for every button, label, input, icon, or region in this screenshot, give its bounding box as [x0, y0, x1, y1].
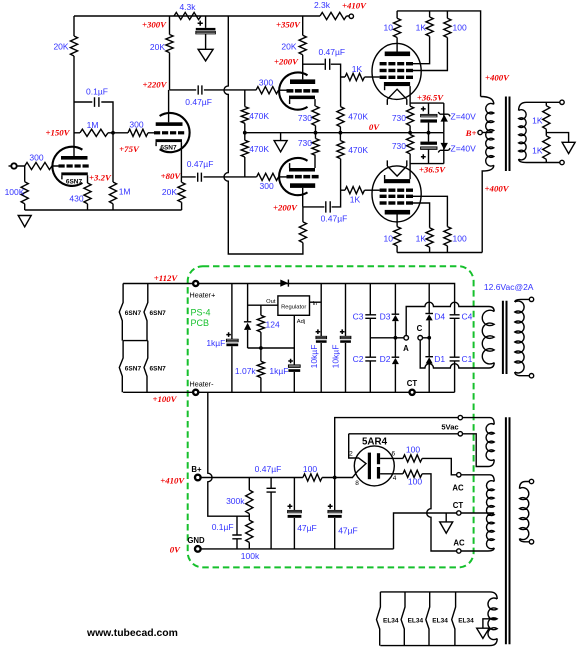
- transformer T2 right winding: [515, 301, 524, 373]
- terminal 12.6V bottom: [529, 374, 533, 378]
- resistor R24 10: [396, 11, 398, 52]
- svg-text:AC: AC: [452, 483, 464, 492]
- transformer T3 5V winding: [463, 418, 495, 425]
- resistor R6 1M: [112, 133, 114, 210]
- svg-text:5AR4: 5AR4: [362, 437, 388, 448]
- rectifier V3 5AR4: [354, 446, 394, 486]
- resistor R28 10: [396, 215, 398, 253]
- wire pin2 to 5Vac: [349, 433, 458, 435]
- capacitor C20 47uF: [334, 478, 336, 549]
- svg-text:100K: 100K: [5, 187, 25, 197]
- diode D3 series: [280, 280, 288, 287]
- resistor R3 2.3k: [320, 12, 347, 19]
- resistor R35 1.07k: [260, 348, 262, 392]
- svg-text:1K: 1K: [532, 145, 543, 155]
- svg-text:Adj: Adj: [297, 319, 305, 325]
- transformer T1 core: [506, 97, 510, 172]
- resistor R37 100k: [246, 520, 253, 542]
- transformer T1 primary winding: [486, 103, 494, 166]
- svg-text:+36.5V: +36.5V: [419, 164, 446, 174]
- wire cathode node upper: [410, 102, 444, 104]
- svg-text:Z=40V: Z=40V: [451, 111, 477, 121]
- terminal Heater-: [193, 390, 198, 395]
- capacitor C18 0.47uF: [267, 478, 276, 549]
- resistor R25 1K: [413, 11, 430, 64]
- EL34 heater box top: [380, 592, 497, 599]
- svg-text:47µF: 47µF: [297, 523, 317, 533]
- wire top B+ rail: [74, 15, 349, 17]
- svg-text:470K: 470K: [249, 144, 269, 154]
- wire center column +350V feed with hops: [224, 16, 303, 254]
- svg-text:0.47µF: 0.47µF: [318, 47, 345, 57]
- ground on CT: [445, 513, 447, 522]
- svg-text:6SN7: 6SN7: [125, 310, 142, 317]
- resistor R11 20K cathode: [180, 177, 182, 210]
- svg-text:124: 124: [266, 320, 280, 330]
- resistor R4 1M: [74, 132, 113, 134]
- capacitor C19 47uF: [293, 478, 295, 549]
- terminal GND: [195, 546, 201, 552]
- svg-text:PCB: PCB: [191, 318, 210, 328]
- transformer T1 primary lead top: [481, 97, 494, 105]
- terminal Heater+: [193, 281, 198, 286]
- wire Adj line: [248, 315, 295, 364]
- wire top plate rail: [397, 11, 481, 97]
- capacitor C13 C3: [365, 284, 376, 358]
- transformer T3 HV winding: [461, 475, 494, 482]
- svg-text:+80V: +80V: [161, 171, 182, 181]
- transformer T3 center tap: [461, 512, 494, 514]
- capacitor C14 C2: [365, 357, 376, 392]
- capacitor C6 0.47uF lower right: [326, 201, 330, 212]
- heater 6SN7 #3: [119, 341, 123, 393]
- svg-text:A: A: [403, 344, 409, 353]
- svg-text:+400V: +400V: [485, 183, 510, 193]
- resistor R39 100 pin6: [380, 457, 403, 459]
- wire 6SN7 heater box middle: [123, 340, 148, 342]
- svg-text:12.6Vac@2A: 12.6Vac@2A: [484, 282, 534, 292]
- svg-text:100: 100: [303, 464, 317, 474]
- svg-text:1M: 1M: [119, 187, 131, 197]
- resistor R40 100 pin4: [380, 473, 403, 475]
- svg-text:100: 100: [406, 444, 420, 454]
- diode D6 D2: [394, 364, 396, 392]
- pentode V1 upper output tube: [372, 43, 421, 99]
- wire PCB bottom rail: [199, 391, 455, 393]
- resistor R30 100: [413, 196, 447, 252]
- resistor R23 730 lower: [312, 139, 319, 156]
- svg-text:4: 4: [393, 475, 397, 482]
- resistor R29 1K: [413, 203, 430, 253]
- terminal A: [404, 336, 409, 341]
- terminal output bottom: [560, 160, 564, 164]
- svg-text:1K: 1K: [416, 234, 427, 244]
- transformer T1 primary lead bottom: [482, 165, 494, 252]
- svg-text:470K: 470K: [348, 112, 368, 122]
- terminal B+ OPT: [482, 132, 492, 134]
- svg-text:C1: C1: [462, 354, 473, 364]
- diode D8 D1: [428, 364, 430, 393]
- svg-text:+300V: +300V: [142, 20, 167, 30]
- resistor R33 1K lower: [543, 136, 550, 160]
- svg-text:C: C: [417, 324, 423, 333]
- svg-text:100: 100: [453, 23, 467, 33]
- svg-text:100k: 100k: [241, 551, 260, 561]
- svg-text:AC: AC: [453, 538, 465, 547]
- svg-text:1kµF: 1kµF: [206, 338, 225, 348]
- diode D5 D3: [394, 284, 396, 358]
- svg-text:300: 300: [29, 153, 43, 163]
- svg-text:300: 300: [129, 119, 143, 129]
- transformer T3 core: [506, 417, 510, 644]
- svg-text:+220V: +220V: [142, 80, 167, 90]
- resistor R22 470K lower right: [337, 141, 344, 159]
- heater EL34 #3: [426, 592, 430, 646]
- capacitor C3 0.47uF upper: [170, 89, 257, 91]
- svg-text:0.47µF: 0.47µF: [255, 464, 282, 474]
- svg-text:730: 730: [298, 113, 312, 123]
- terminal AC upper: [457, 473, 461, 477]
- diode D4 shunt: [247, 284, 249, 349]
- transformer T2 secondary leads: [515, 299, 529, 375]
- 5AR4 plates: [368, 453, 371, 480]
- svg-text:+36.5V: +36.5V: [417, 93, 444, 103]
- svg-text:1K: 1K: [532, 115, 543, 125]
- svg-text:EL34: EL34: [432, 617, 448, 624]
- wire 6SN7 heater box top: [123, 283, 193, 285]
- svg-text:D4: D4: [434, 312, 445, 322]
- svg-text:Heater+: Heater+: [190, 291, 216, 300]
- wire C to transformer: [420, 340, 494, 368]
- wire to 5Vac top: [335, 418, 458, 478]
- wire CT to ground rail: [394, 513, 457, 549]
- svg-text:Out: Out: [266, 299, 276, 305]
- svg-text:6: 6: [391, 450, 395, 457]
- svg-text:8: 8: [355, 480, 359, 487]
- resistor R21 1K lower: [345, 187, 365, 194]
- svg-text:www.tubecad.com: www.tubecad.com: [86, 628, 178, 639]
- svg-text:0V: 0V: [170, 544, 181, 554]
- zener D2 Z=40V: [443, 133, 445, 164]
- EL34 heater box bottom: [380, 639, 497, 646]
- terminal CT: [457, 511, 461, 515]
- wire 0V rail: [245, 132, 444, 134]
- svg-text:0.1µF: 0.1µF: [86, 87, 108, 97]
- pentode V2 lower output tube: [372, 166, 421, 222]
- svg-text:EL34: EL34: [458, 617, 474, 624]
- resistor R26 100: [413, 11, 447, 71]
- terminal 5Vac 1: [458, 415, 462, 419]
- transformer T1 secondary leads: [519, 102, 560, 162]
- svg-text:5Vac: 5Vac: [441, 422, 458, 431]
- triode U1A 6SN7 input: [52, 147, 82, 186]
- capacitor C1 electrolytic 350V: [205, 16, 207, 49]
- triode U2A 6SN7 driver upper: [279, 73, 307, 110]
- resistor R13 470K upper: [244, 90, 246, 133]
- svg-text:Regulator: Regulator: [281, 304, 306, 310]
- svg-text:CT: CT: [453, 501, 464, 510]
- resistor R36 300k: [248, 478, 250, 521]
- diode D7 D4: [428, 284, 430, 357]
- svg-text:20K: 20K: [281, 41, 296, 51]
- svg-text:0.1µF: 0.1µF: [212, 522, 234, 532]
- wire secondary center to ground: [546, 133, 568, 143]
- resistor R5 300: [113, 132, 154, 134]
- svg-text:Heater-: Heater-: [190, 380, 215, 389]
- svg-text:1M: 1M: [87, 120, 99, 130]
- wire ground rail: [25, 209, 182, 211]
- svg-text:D3: D3: [380, 312, 391, 322]
- svg-text:+200V: +200V: [273, 202, 298, 212]
- terminal AC lower: [457, 549, 461, 553]
- terminal CT pcb: [410, 390, 415, 395]
- resistor R12 20K lower plate: [299, 222, 306, 243]
- svg-text:100: 100: [408, 476, 422, 486]
- capacitor C15 C4: [450, 315, 460, 357]
- svg-text:300: 300: [259, 78, 273, 88]
- svg-text:300: 300: [260, 181, 274, 191]
- wire 6SN7 heater box bottom: [123, 391, 193, 393]
- svg-text:EL34: EL34: [408, 617, 424, 624]
- ground below C1: [198, 49, 213, 61]
- svg-text:CT: CT: [407, 379, 418, 388]
- EL34 heater winding: [488, 598, 497, 640]
- svg-text:100: 100: [453, 234, 467, 244]
- terminal +410V: [349, 14, 353, 18]
- svg-text:0.47µF: 0.47µF: [187, 159, 214, 169]
- PS-4 PCB dashed border: [188, 266, 474, 567]
- 5AR4 filament: [349, 434, 366, 478]
- capacitor C8 electrolytic lower: [428, 133, 430, 164]
- svg-text:10kµF: 10kµF: [309, 345, 319, 369]
- svg-text:6SN7: 6SN7: [160, 145, 177, 152]
- resistor R1 20K: [70, 36, 77, 56]
- heater 6SN7 #1: [119, 284, 123, 341]
- svg-text:C3: C3: [353, 312, 364, 322]
- terminal C: [418, 336, 423, 341]
- svg-text:10kµF: 10kµF: [330, 345, 340, 369]
- svg-text:1K: 1K: [350, 194, 361, 204]
- svg-text:C4: C4: [462, 312, 473, 322]
- svg-text:6SN7: 6SN7: [125, 366, 142, 373]
- wire PCB top rail: [199, 284, 455, 315]
- resistor R2 4.3k: [174, 12, 201, 19]
- resistor R34 124: [260, 305, 262, 348]
- svg-text:GND: GND: [187, 536, 205, 545]
- svg-text:430: 430: [69, 193, 83, 203]
- svg-text:20K: 20K: [162, 187, 177, 197]
- wire A to transformer: [406, 302, 494, 335]
- resistor R18 1K upper: [345, 73, 365, 80]
- heater EL34 #1: [377, 592, 381, 646]
- svg-text:4.3k: 4.3k: [179, 2, 196, 12]
- svg-text:+200V: +200V: [274, 57, 299, 67]
- input jack J1: [9, 165, 12, 167]
- svg-text:10: 10: [384, 234, 394, 244]
- capacitor C17 0.1uF: [232, 516, 241, 549]
- wire bottom plate rail: [397, 252, 482, 254]
- capacitor C16 C1: [450, 357, 460, 392]
- resistor R15 300 upper grid: [256, 87, 279, 94]
- svg-text:EL34: EL34: [383, 617, 399, 624]
- svg-text:300k: 300k: [226, 496, 245, 506]
- transformer T1 secondary winding: [519, 110, 527, 160]
- svg-text:1.07k: 1.07k: [235, 366, 257, 376]
- resistor R31 730: [409, 133, 411, 179]
- terminal 12.6V top: [529, 297, 533, 301]
- transformer T2 left winding: [482, 310, 494, 364]
- resistor R27 730: [409, 86, 411, 133]
- terminal mains top: [529, 479, 533, 483]
- svg-text:730: 730: [392, 141, 406, 151]
- resistor R16 300 lower grid: [257, 173, 279, 180]
- svg-text:D2: D2: [380, 354, 391, 364]
- svg-text:B+: B+: [191, 465, 202, 474]
- heater EL34 #2: [401, 592, 405, 646]
- transformer T3 primary winding: [520, 482, 530, 489]
- terminal output top: [560, 100, 564, 104]
- wire mid row: [370, 337, 429, 339]
- wire GND rail: [201, 548, 394, 550]
- svg-text:B+: B+: [465, 128, 477, 138]
- terminal B+: [195, 475, 201, 481]
- heater 6SN7 #2: [144, 284, 148, 341]
- svg-text:1kµF: 1kµF: [269, 366, 288, 376]
- wire In line: [310, 301, 322, 303]
- resistor R38 100: [303, 474, 322, 481]
- resistor R19 470K upper right: [337, 107, 344, 127]
- svg-text:PS-4: PS-4: [191, 308, 211, 318]
- svg-text:2: 2: [349, 450, 353, 457]
- ground symbol: [18, 216, 31, 227]
- triode U2B 6SN7 driver lower: [279, 158, 307, 195]
- terminal 5Vac 2: [458, 432, 462, 436]
- node junction dot: [111, 131, 115, 135]
- svg-text:+100V: +100V: [152, 394, 177, 404]
- svg-text:730: 730: [298, 138, 312, 148]
- svg-text:470K: 470K: [249, 111, 269, 121]
- ground on EL34 winding: [483, 619, 497, 628]
- svg-text:+150V: +150V: [45, 127, 70, 137]
- wire left +300V drop: [73, 16, 75, 156]
- capacitor C9 1kuF: [231, 284, 233, 393]
- svg-text:47µF: 47µF: [338, 526, 358, 536]
- resistor R17 20K upper plate: [303, 16, 325, 79]
- svg-text:+3.2V: +3.2V: [89, 173, 112, 183]
- svg-text:0.47µF: 0.47µF: [321, 214, 348, 224]
- svg-text:+400V: +400V: [485, 72, 510, 82]
- triode U1B 6SN7 concertina: [160, 113, 190, 152]
- svg-text:0.47µF: 0.47µF: [185, 97, 212, 107]
- wire Out line: [248, 304, 278, 306]
- svg-text:+410V: +410V: [342, 0, 367, 10]
- svg-text:C2: C2: [353, 354, 364, 364]
- capacitor C2 0.1uF: [74, 102, 113, 133]
- heater EL34 #4: [452, 592, 456, 646]
- ground on 0V rail: [280, 133, 282, 141]
- wire pin4 to AC lower with hop: [422, 474, 456, 551]
- svg-text:+112V: +112V: [154, 273, 179, 283]
- svg-text:6SN7: 6SN7: [150, 366, 167, 373]
- terminal mains bottom: [529, 540, 533, 544]
- heater 6SN7 #4: [144, 341, 148, 393]
- svg-text:470K: 470K: [348, 145, 368, 155]
- regulator U4 box: [278, 296, 310, 315]
- capacitor C4 0.47uF lower: [181, 176, 256, 178]
- svg-text:+410V: +410V: [160, 476, 185, 486]
- svg-text:Z=40V: Z=40V: [451, 144, 477, 154]
- svg-text:0V: 0V: [369, 122, 380, 132]
- svg-text:1K: 1K: [416, 23, 427, 33]
- resistor R9 430: [84, 183, 91, 204]
- resistor R14 470K lower: [244, 133, 246, 177]
- transformer T2 core: [503, 301, 507, 374]
- svg-text:+75V: +75V: [119, 144, 140, 154]
- capacitor C12 10kuF: [345, 284, 347, 393]
- svg-text:20K: 20K: [53, 42, 68, 52]
- capacitor C5 0.47uF upper right: [325, 59, 329, 70]
- capacitor C11 10kuF: [320, 284, 322, 393]
- zener D1 Z=40V: [443, 103, 445, 133]
- wire lower plate to node: [303, 188, 325, 207]
- capacitor C7 electrolytic upper: [428, 103, 430, 133]
- wire input: [17, 166, 59, 210]
- svg-text:10: 10: [384, 23, 394, 33]
- resistor R20 730 upper: [312, 106, 319, 126]
- svg-text:1K: 1K: [352, 64, 363, 74]
- resistor R32 1K upper: [545, 102, 547, 136]
- svg-text:D1: D1: [434, 354, 445, 364]
- svg-text:6SN7: 6SN7: [66, 178, 83, 185]
- wire B+ rail: [201, 477, 353, 479]
- wire cathode node lower: [410, 163, 444, 165]
- svg-text:6SN7: 6SN7: [150, 310, 167, 317]
- capacitor C10 1kuF: [288, 365, 300, 368]
- wire heater elevation drop with hop: [208, 392, 250, 516]
- svg-text:+350V: +350V: [276, 20, 301, 30]
- resistor R8 100K: [21, 182, 28, 204]
- svg-text:730: 730: [392, 113, 406, 123]
- svg-text:2.3k: 2.3k: [314, 0, 331, 10]
- svg-text:20K: 20K: [150, 42, 165, 52]
- resistor R10 20K plate: [169, 16, 171, 90]
- resistor R7 300: [25, 162, 52, 169]
